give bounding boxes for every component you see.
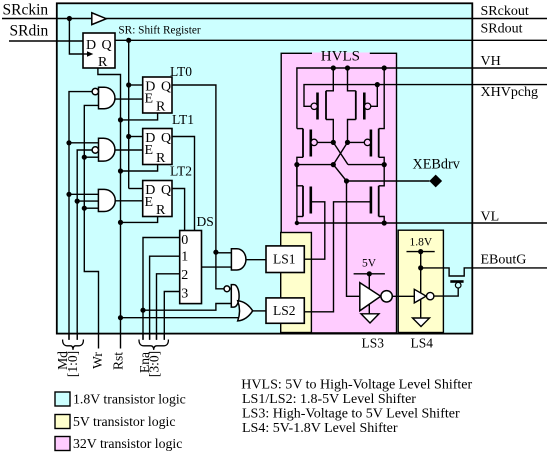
svg-text:LS4: 5V-1.8V Level Shifter: LS4: 5V-1.8V Level Shifter <box>242 421 398 436</box>
svg-text:Q: Q <box>161 80 171 95</box>
svg-text:VH: VH <box>481 54 501 69</box>
svg-text:E: E <box>145 143 154 158</box>
svg-text:5V transistor logic: 5V transistor logic <box>73 414 175 429</box>
svg-text:LS4: LS4 <box>411 336 434 351</box>
svg-text:3: 3 <box>181 287 188 302</box>
svg-text:0: 0 <box>181 233 188 248</box>
svg-text:Rst: Rst <box>111 352 126 370</box>
svg-text:LT2: LT2 <box>170 164 192 179</box>
svg-text:1: 1 <box>181 250 188 265</box>
svg-text:5V: 5V <box>362 258 377 270</box>
svg-text:E: E <box>145 92 154 107</box>
svg-text:LT1: LT1 <box>172 112 194 127</box>
svg-text:D: D <box>86 38 96 53</box>
svg-text:LT0: LT0 <box>170 64 192 79</box>
svg-text:SRdin: SRdin <box>10 23 49 40</box>
svg-text:R: R <box>156 100 166 115</box>
svg-text:XEBdrv: XEBdrv <box>413 157 461 173</box>
svg-text:R: R <box>156 203 166 218</box>
svg-text:SRckin: SRckin <box>3 2 49 19</box>
svg-text:1.8V transistor logic: 1.8V transistor logic <box>73 392 186 407</box>
svg-text:SRdout: SRdout <box>481 22 523 37</box>
svg-text:LS1/LS2: 1.8-5V Level Shifter: LS1/LS2: 1.8-5V Level Shifter <box>242 392 416 407</box>
svg-text:Q: Q <box>161 131 171 146</box>
svg-text:32V transistor logic: 32V transistor logic <box>73 436 182 451</box>
svg-text:LS2: LS2 <box>273 303 296 318</box>
svg-text:2: 2 <box>181 268 188 283</box>
svg-text:1.8V: 1.8V <box>410 237 433 249</box>
svg-text:Q: Q <box>102 38 112 53</box>
svg-text:XHVpchg: XHVpchg <box>481 85 539 100</box>
svg-text:LS1: LS1 <box>273 252 296 267</box>
svg-text:VL: VL <box>481 210 500 225</box>
svg-text:DS: DS <box>197 214 214 229</box>
svg-text:[1:0]: [1:0] <box>65 351 80 377</box>
svg-text:E: E <box>145 195 154 210</box>
svg-text:Wr: Wr <box>90 352 105 369</box>
svg-text:SRckout: SRckout <box>481 4 529 19</box>
svg-text:EBoutG: EBoutG <box>481 252 527 267</box>
svg-text:Q: Q <box>161 183 171 198</box>
svg-text:SR: Shift Register: SR: Shift Register <box>118 25 200 37</box>
svg-text:HVLS: HVLS <box>321 48 360 64</box>
svg-text:HVLS: 5V to High-Voltage Level: HVLS: 5V to High-Voltage Level Shifter <box>241 378 472 393</box>
svg-text:LS3: High-Voltage to 5V Level: LS3: High-Voltage to 5V Level Shifter <box>242 407 460 422</box>
svg-text:R: R <box>98 55 108 70</box>
svg-text:R: R <box>156 151 166 166</box>
svg-text:LS3: LS3 <box>362 336 385 351</box>
svg-text:[3:0]: [3:0] <box>147 351 162 377</box>
